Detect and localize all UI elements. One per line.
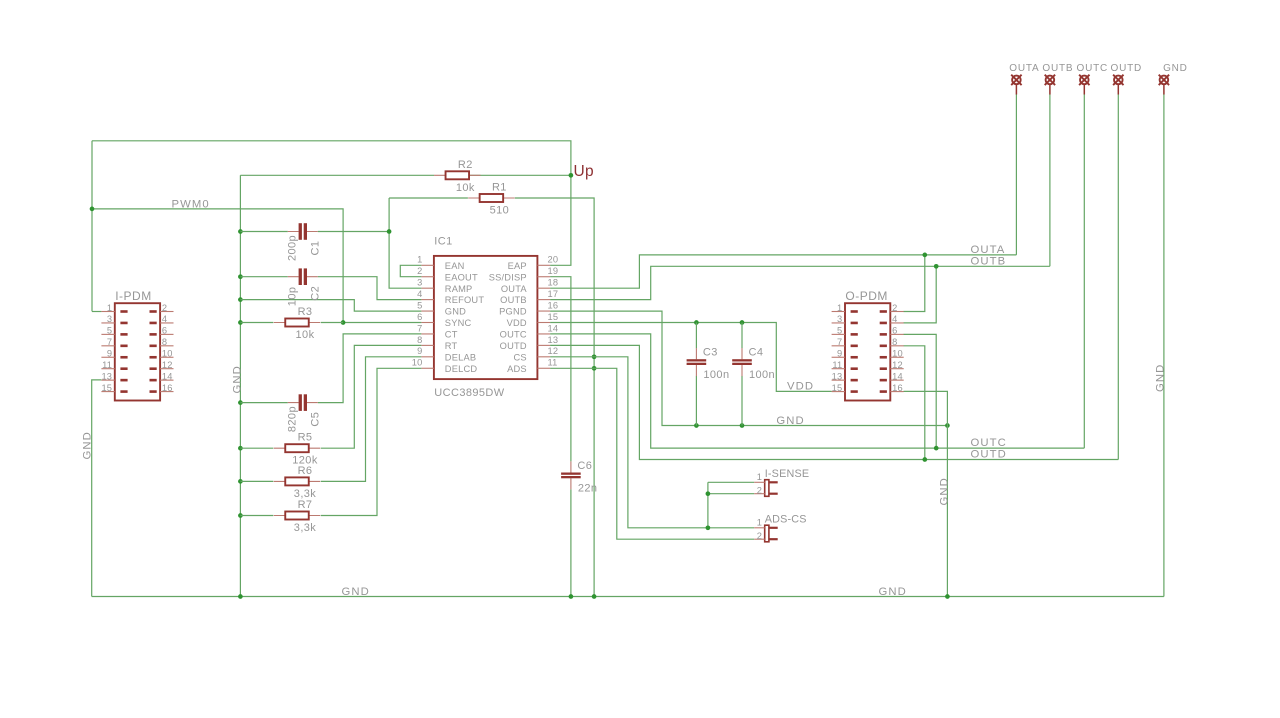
junction C6 / GND rail	[569, 594, 574, 599]
svg-text:7: 7	[417, 323, 422, 333]
I-PDM pin 8 contact dash	[150, 345, 157, 348]
svg-text:3: 3	[107, 314, 112, 324]
I-PDM pin 5 stub	[101, 333, 114, 335]
svg-text:DELAB: DELAB	[445, 352, 477, 362]
svg-text:8: 8	[417, 335, 422, 345]
svg-text:12: 12	[892, 360, 903, 370]
wire net PWM0: into IC pin6 SYNC	[343, 322, 421, 324]
svg-text:15: 15	[548, 312, 559, 322]
resistor R3	[274, 319, 321, 327]
svg-text:R1: R1	[492, 182, 507, 194]
O-PDM pin 11 contact dash	[851, 367, 858, 370]
svg-text:820p: 820p	[286, 406, 298, 432]
svg-text:11: 11	[832, 360, 842, 370]
svg-text:15: 15	[832, 383, 843, 393]
I-PDM pin 13 contact dash	[120, 379, 127, 382]
I-PDM pin 3 contact dash	[120, 322, 127, 325]
junction OUTC branch	[934, 446, 939, 451]
O-PDM pin 10 contact dash	[880, 356, 887, 359]
IC1 pin 7 (CT) stub	[421, 333, 434, 335]
svg-text:5: 5	[417, 300, 422, 310]
wire net VDD: down to C3 top	[695, 323, 697, 349]
wire net OUTC: branch up to O-PDM pin6	[904, 334, 937, 448]
I-PDM pin 1 contact dash	[120, 310, 127, 313]
svg-text:10: 10	[162, 349, 173, 359]
svg-text:GND: GND	[342, 586, 370, 598]
junction VDD / C3	[694, 320, 699, 325]
svg-text:14: 14	[548, 323, 559, 333]
svg-text:OUTC: OUTC	[971, 437, 1007, 449]
svg-text:510: 510	[490, 205, 510, 217]
IC1 pin 13 (OUTD) stub	[537, 344, 550, 346]
resistor R7	[274, 512, 321, 520]
wire net GND: C3 bottom down	[695, 376, 697, 426]
O-PDM pin 4 stub	[890, 322, 903, 324]
svg-text:EAN: EAN	[445, 261, 465, 271]
svg-text:9: 9	[837, 349, 842, 359]
svg-text:R5: R5	[298, 432, 313, 444]
svg-text:CT: CT	[445, 330, 458, 340]
O-PDM pin 7 contact dash	[851, 345, 858, 348]
wire net GND: IC pin16 PGND down and right along y=425	[550, 311, 947, 425]
junction R1 column / CS row	[592, 354, 597, 359]
resistor R2	[434, 171, 481, 179]
junction OUTD branch	[922, 457, 927, 462]
IC1 pin 3 (RAMP) stub	[421, 287, 434, 289]
svg-text:100n: 100n	[749, 369, 775, 381]
O-PDM pin 7 stub	[832, 345, 845, 347]
junction R1 column / GND rail	[592, 594, 597, 599]
wire net R5 left to GND bus	[240, 447, 273, 449]
svg-text:1: 1	[417, 255, 422, 265]
wire net OUTD: IC pin13 down to y=459 run	[550, 345, 1118, 459]
node Up (junction)	[569, 173, 574, 178]
wire net R3 left to GND bus	[240, 322, 273, 324]
junction GND row / C3	[694, 423, 699, 428]
wire net GND: pad riser right edge	[1163, 94, 1165, 597]
I-SENSE pin 1 head mark	[769, 481, 778, 483]
junction R1 column / ADS row	[592, 366, 597, 371]
capacitor C6	[561, 461, 581, 489]
wire net GND: C4 bottom down	[741, 376, 743, 426]
svg-text:R2: R2	[458, 159, 473, 171]
svg-text:1: 1	[757, 472, 762, 482]
resistor R6	[274, 477, 321, 485]
svg-text:200p: 200p	[286, 235, 298, 261]
svg-text:C1: C1	[309, 241, 321, 256]
O-PDM pin 8 stub	[890, 345, 903, 347]
IC1 pin 17 (OUTB) stub	[537, 299, 550, 301]
O-PDM pin 2 contact dash	[880, 310, 887, 313]
I-PDM pin 6 stub	[160, 333, 173, 335]
wire net OUTA: riser to pad	[1015, 94, 1017, 255]
wire net OUTC: riser to pad	[1083, 94, 1085, 448]
svg-text:C3: C3	[703, 347, 718, 359]
svg-text:11: 11	[548, 358, 558, 368]
I-PDM pin 4 contact dash	[150, 322, 157, 325]
resistor R1	[468, 194, 515, 202]
svg-text:C5: C5	[309, 412, 321, 427]
svg-text:5: 5	[107, 326, 112, 336]
svg-text:8: 8	[162, 337, 167, 347]
svg-text:7: 7	[837, 337, 842, 347]
svg-text:Up: Up	[574, 163, 594, 180]
IC1 pin 10 (DELCD) stub	[421, 367, 434, 369]
svg-text:10k: 10k	[296, 329, 315, 341]
IC1 pin 12 (CS) stub	[537, 356, 550, 358]
wire net C6 bottom to GND rail	[570, 489, 572, 596]
wire net Up: top run from I-PDM pin1 riser to Up node	[92, 141, 571, 176]
svg-text:16: 16	[892, 383, 903, 393]
wire net CS: IC pin12 down to ADS-CS pin1 row	[550, 357, 708, 528]
svg-text:RT: RT	[445, 341, 458, 351]
connector I-SENSE body	[765, 480, 769, 497]
junction GND bus / bottom rail	[238, 594, 243, 599]
wire net R5 right up to IC pin8 RT	[321, 345, 422, 448]
wire net CS: I-SENSE pin2 row	[708, 493, 754, 495]
svg-text:GND: GND	[1155, 364, 1167, 392]
junction GND row / O-PDM GND column	[945, 423, 950, 428]
capacitor C4	[732, 348, 752, 376]
svg-text:GND: GND	[232, 365, 244, 393]
svg-text:OUTB: OUTB	[500, 295, 527, 305]
svg-text:13: 13	[548, 335, 559, 345]
I-PDM pin 6 contact dash	[150, 333, 157, 336]
svg-text:ADS: ADS	[507, 364, 527, 374]
svg-text:10p: 10p	[286, 287, 298, 307]
O-PDM pin 6 stub	[890, 333, 903, 335]
wire net C5 left to GND bus	[240, 402, 287, 404]
wire net R6 left to GND bus	[240, 480, 273, 482]
svg-text:14: 14	[892, 371, 903, 381]
svg-text:VDD: VDD	[507, 318, 527, 328]
I-PDM pin 2 stub	[160, 311, 173, 313]
svg-text:O-PDM: O-PDM	[845, 289, 888, 303]
wire net GND: left riser to I-PDM pin13	[92, 380, 102, 597]
svg-text:OUTD: OUTD	[1111, 63, 1143, 74]
junction VDD / C4	[740, 320, 745, 325]
svg-text:2: 2	[757, 531, 762, 541]
I-PDM pin 16 contact dash	[150, 390, 157, 393]
svg-text:C6: C6	[577, 460, 592, 472]
wire net OUTA: IC pin18 up to y=254.4 run	[550, 255, 1016, 288]
wire net Up: into I-PDM pin1	[92, 311, 101, 313]
junction GND column / rail	[945, 594, 950, 599]
I-PDM pin 10 stub	[160, 356, 173, 358]
svg-text:11: 11	[102, 360, 112, 370]
wire net GND: O-PDM pin16 right and down to rail	[904, 391, 948, 596]
O-PDM pin 12 contact dash	[880, 367, 887, 370]
svg-text:4: 4	[162, 314, 167, 324]
svg-text:17: 17	[548, 289, 559, 299]
IC1 pin 5 (GND) stub	[421, 310, 434, 312]
pad/terminal OUTA (crossed-circle)	[1011, 75, 1021, 95]
I-PDM pin 2 contact dash	[150, 310, 157, 313]
svg-text:DELCD: DELCD	[445, 364, 478, 374]
svg-text:9: 9	[107, 349, 112, 359]
IC1 pin 11 (ADS) stub	[537, 367, 550, 369]
I-PDM pin 14 contact dash	[150, 379, 157, 382]
wire net GND: main left bus x=240	[239, 175, 241, 596]
wire net Up: left riser x=91.5	[91, 141, 93, 312]
svg-text:I-PDM: I-PDM	[115, 289, 152, 303]
junction net PWM0 / R3 at SYNC row	[341, 320, 346, 325]
connector I-PDM body	[115, 303, 160, 400]
svg-text:4: 4	[417, 289, 422, 299]
O-PDM pin 15 contact dash	[851, 390, 858, 393]
IC1 pin 6 (SYNC) stub	[421, 322, 434, 324]
svg-text:REFOUT: REFOUT	[445, 295, 485, 305]
ADS-CS pin 2 stub	[754, 538, 765, 540]
svg-text:VDD: VDD	[787, 380, 814, 392]
connector O-PDM body	[845, 303, 890, 400]
wire net OUTB: riser to pad	[1049, 94, 1051, 266]
O-PDM pin 9 contact dash	[851, 356, 858, 359]
wire net RAMP: GND-bus ... wait C1 left (to bus)	[240, 231, 287, 233]
IC1 pin 18 (OUTA) stub	[537, 287, 550, 289]
wire net C2 right jog down to IC pin4 REFOUT	[318, 277, 422, 300]
svg-text:SYNC: SYNC	[445, 318, 472, 328]
ADS-CS pin 1 head mark	[769, 527, 778, 529]
svg-text:5: 5	[837, 326, 842, 336]
IC1 pin 1 (EAN) stub	[421, 264, 434, 266]
O-PDM pin 2 stub	[890, 311, 903, 313]
svg-text:GND: GND	[82, 431, 94, 459]
O-PDM pin 3 contact dash	[851, 322, 858, 325]
capacitor C3	[687, 348, 707, 376]
svg-text:12: 12	[548, 346, 559, 356]
svg-text:I-SENSE: I-SENSE	[765, 468, 810, 480]
svg-text:6: 6	[892, 326, 897, 336]
resistor R5	[274, 444, 321, 452]
wire net VDD: down to C4 top	[741, 323, 743, 349]
O-PDM pin 6 contact dash	[880, 333, 887, 336]
ADS-CS pin 1 stub	[754, 527, 765, 529]
IC1 pin 20 (EAP) stub	[537, 264, 550, 266]
svg-text:2: 2	[162, 303, 167, 313]
svg-text:16: 16	[548, 300, 559, 310]
svg-text:GND: GND	[939, 477, 951, 505]
O-PDM pin 10 stub	[890, 356, 903, 358]
op-amp / controller IC U1 (IC1 UCC3895DW) body	[434, 256, 538, 379]
svg-text:OUTC: OUTC	[1077, 63, 1109, 74]
I-PDM pin 16 stub	[160, 391, 173, 393]
junction GND bus / pin5 row	[238, 297, 243, 302]
wire net VDD: IC pin15 right	[550, 322, 696, 324]
IC1 pin 14 (OUTC) stub	[537, 333, 550, 335]
wire net R3 right to SYNC junction	[321, 322, 343, 324]
svg-text:GND: GND	[1163, 63, 1188, 74]
wire net EAN-EAOUT feedback loop	[400, 265, 421, 276]
O-PDM pin 15 stub	[832, 391, 845, 393]
svg-text:OUTD: OUTD	[500, 341, 527, 351]
junction CS / I-SENSE pin2	[706, 491, 711, 496]
svg-text:18: 18	[548, 278, 559, 288]
junction GND bus / R6	[238, 479, 243, 484]
wire net C1 right to RAMP riser	[318, 231, 389, 233]
svg-text:R3: R3	[298, 306, 313, 318]
I-SENSE pin 2 head mark	[769, 493, 778, 495]
IC1 pin 15 (VDD) stub	[537, 322, 550, 324]
wire net GND: bus row jog to IC pin5 GND	[240, 300, 421, 312]
wire net C2 left to GND bus	[240, 276, 287, 278]
I-PDM pin 12 stub	[160, 368, 173, 370]
I-PDM pin 11 stub	[101, 368, 114, 370]
svg-text:2: 2	[892, 303, 897, 313]
capacitor C5	[288, 394, 318, 411]
svg-text:CS: CS	[513, 352, 526, 362]
svg-text:EAP: EAP	[508, 261, 527, 271]
junction GND bus / R3	[238, 320, 243, 325]
I-PDM pin 14 stub	[160, 379, 173, 381]
svg-text:19: 19	[548, 266, 559, 276]
O-PDM pin 1 stub	[832, 311, 845, 313]
wire net C5 right up to IC pin7 CT	[318, 334, 422, 403]
IC1 pin 19 (SS/DISP) stub	[537, 276, 550, 278]
I-PDM pin 3 stub	[101, 322, 114, 324]
connector ADS-CS body	[765, 525, 769, 542]
O-PDM pin 13 stub	[832, 379, 845, 381]
O-PDM pin 14 stub	[890, 379, 903, 381]
junction GND bus / C2	[238, 274, 243, 279]
svg-text:13: 13	[101, 371, 112, 381]
O-PDM pin 14 contact dash	[880, 379, 887, 382]
wire net OUTD: branch up to O-PDM pin8	[904, 346, 925, 460]
capacitor C1	[288, 223, 318, 240]
wire net R6 right up to IC pin9 DELAB	[321, 357, 422, 482]
svg-text:OUTA: OUTA	[1009, 63, 1039, 74]
I-PDM pin 1 stub	[101, 311, 114, 313]
junction C1 / RAMP riser	[387, 229, 392, 234]
svg-text:15: 15	[101, 383, 112, 393]
I-PDM pin 11 contact dash	[120, 367, 127, 370]
O-PDM pin 16 stub	[890, 391, 903, 393]
wire net CS: I-SENSE pin1 row	[708, 481, 754, 483]
svg-text:20: 20	[548, 255, 559, 265]
svg-text:IC1: IC1	[434, 235, 452, 247]
wire net ADS: IC pin11 down to ADS-CS pin2	[550, 368, 754, 539]
IC1 pin 16 (PGND) stub	[537, 310, 550, 312]
I-PDM pin 8 stub	[160, 345, 173, 347]
I-PDM pin 9 contact dash	[120, 356, 127, 359]
svg-text:10k: 10k	[456, 182, 475, 194]
svg-text:12: 12	[162, 360, 173, 370]
svg-text:C4: C4	[749, 347, 764, 359]
junction OUTB branch	[934, 264, 939, 269]
svg-text:OUTB: OUTB	[1042, 63, 1073, 74]
svg-text:PGND: PGND	[499, 307, 527, 317]
I-SENSE pin 1 stub	[754, 481, 765, 483]
svg-text:R6: R6	[298, 465, 313, 477]
wire net PWM0: from I-PDM riser to SYNC column	[92, 209, 343, 323]
wire net R7 right up to IC pin10 DELCD	[321, 368, 422, 515]
svg-text:OUTC: OUTC	[500, 330, 527, 340]
I-PDM pin 4 stub	[160, 322, 173, 324]
pad/terminal GND (crossed-circle)	[1159, 75, 1169, 95]
wire net OUTC: IC pin14 down to y=447.6 run	[550, 334, 1084, 448]
svg-text:EAOUT: EAOUT	[445, 272, 478, 282]
junction GND bus / C1	[238, 229, 243, 234]
wire net VDD: over C3/C4 down to O-PDM pin15	[696, 323, 831, 392]
O-PDM pin 1 contact dash	[851, 310, 858, 313]
O-PDM pin 16 contact dash	[880, 390, 887, 393]
wire net GND: R2 left row	[240, 174, 434, 176]
O-PDM pin 5 contact dash	[851, 333, 858, 336]
I-PDM pin 5 contact dash	[120, 333, 127, 336]
I-PDM pin 15 contact dash	[120, 390, 127, 393]
O-PDM pin 13 contact dash	[851, 379, 858, 382]
svg-text:13: 13	[832, 371, 843, 381]
svg-text:7: 7	[107, 337, 112, 347]
svg-text:PWM0: PWM0	[172, 198, 210, 210]
svg-text:6: 6	[162, 326, 167, 336]
svg-text:10: 10	[892, 349, 903, 359]
svg-text:9: 9	[417, 346, 422, 356]
wire net Up: R2 right to Up node	[469, 174, 571, 176]
svg-text:1: 1	[107, 303, 112, 313]
svg-text:4: 4	[892, 314, 897, 324]
junction GND bus / R5	[238, 446, 243, 451]
svg-text:R7: R7	[298, 499, 313, 511]
svg-text:2: 2	[757, 486, 762, 496]
wire net R7 left to GND bus	[240, 515, 273, 517]
svg-text:100n: 100n	[703, 369, 729, 381]
O-PDM pin 11 stub	[832, 368, 845, 370]
svg-text:16: 16	[162, 383, 173, 393]
svg-text:14: 14	[162, 371, 173, 381]
O-PDM pin 5 stub	[832, 333, 845, 335]
svg-text:GND: GND	[445, 307, 466, 317]
pad/terminal OUTB (crossed-circle)	[1045, 75, 1055, 95]
svg-text:1: 1	[757, 518, 762, 528]
svg-text:10: 10	[412, 358, 423, 368]
wire net CS: I-SENSE column	[707, 482, 709, 528]
svg-text:GND: GND	[776, 415, 804, 427]
svg-text:OUTA: OUTA	[501, 284, 528, 294]
IC1 pin 9 (DELAB) stub	[421, 356, 434, 358]
IC1 pin 4 (REFOUT) stub	[421, 299, 434, 301]
I-PDM pin 13 stub	[101, 379, 114, 381]
svg-text:UCC3895DW: UCC3895DW	[434, 387, 504, 399]
svg-text:22n: 22n	[578, 482, 598, 494]
svg-text:OUTA: OUTA	[971, 244, 1006, 256]
junction net PWM0 at left riser	[90, 207, 95, 212]
svg-text:8: 8	[892, 337, 897, 347]
wire net OUTA: branch down to O-PDM pin2	[904, 255, 925, 312]
junction OUTA branch	[922, 253, 927, 258]
pad/terminal OUTC (crossed-circle)	[1079, 75, 1089, 95]
svg-text:6: 6	[417, 312, 422, 322]
I-PDM pin 15 stub	[101, 391, 114, 393]
svg-text:3,3k: 3,3k	[294, 522, 316, 534]
I-PDM pin 9 stub	[101, 356, 114, 358]
junction CS column / ADS-CS pin1 row	[706, 525, 711, 530]
svg-text:OUTD: OUTD	[971, 449, 1007, 461]
svg-text:ADS-CS: ADS-CS	[765, 514, 807, 526]
wire net SS/DISP down to C6	[550, 277, 571, 462]
junction GND row / C4	[740, 423, 745, 428]
O-PDM pin 4 contact dash	[880, 322, 887, 325]
svg-text:SS/DISP: SS/DISP	[489, 272, 527, 282]
IC1 pin 8 (RT) stub	[421, 344, 434, 346]
O-PDM pin 12 stub	[890, 368, 903, 370]
svg-text:2: 2	[417, 266, 422, 276]
wire net RAMP: riser x=388.6 down to IC pin3	[389, 198, 421, 288]
O-PDM pin 3 stub	[832, 322, 845, 324]
wire net Up: down to IC pin20 EAP	[550, 175, 571, 265]
wire net OUTB: branch down to O-PDM pin4	[904, 266, 937, 323]
capacitor C2	[288, 268, 318, 285]
